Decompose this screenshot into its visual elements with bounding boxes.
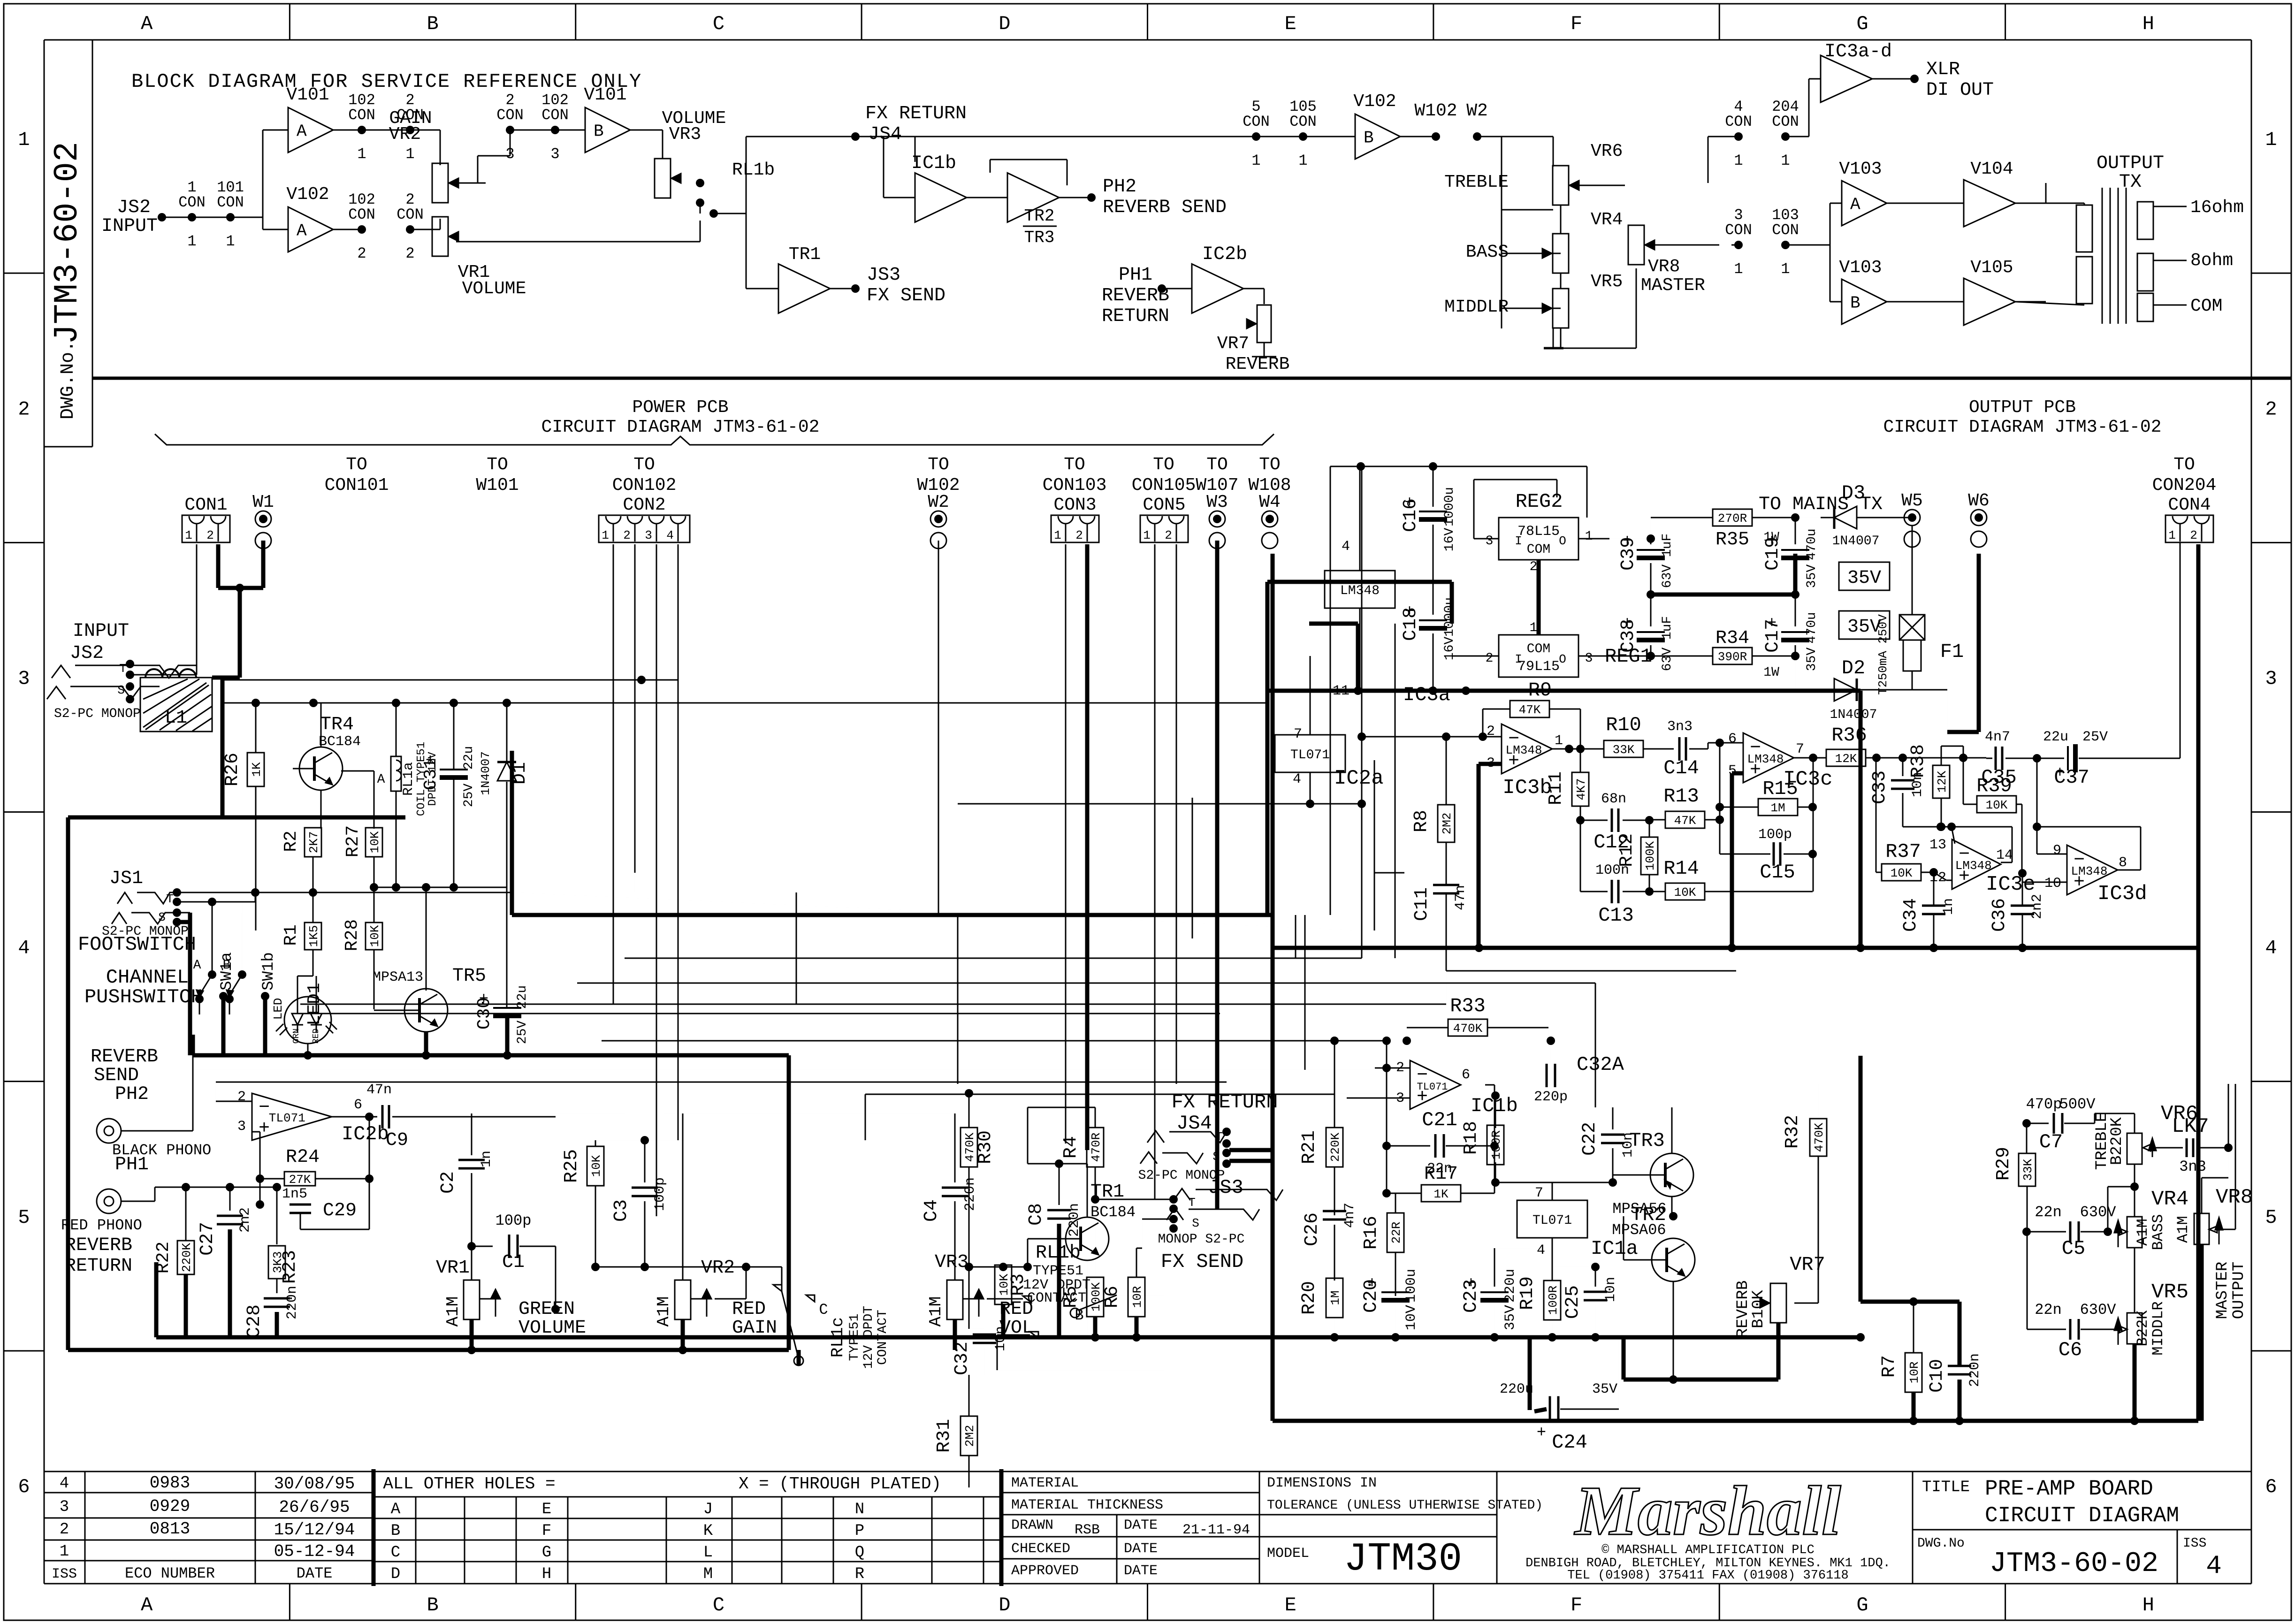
wire long horiz B [300,1013,1220,1014]
svg-text:4: 4 [2265,937,2277,960]
wire long horiz E [216,1082,1227,1083]
svg-text:C21: C21 [1422,1109,1457,1131]
bus power com [1267,582,1452,915]
ground bus power 1472 [1266,686,1860,948]
svg-text:630V: 630V [2080,1301,2117,1319]
svg-text:26/6/95: 26/6/95 [279,1498,350,1517]
svg-text:D2: D2 [1842,657,1865,679]
regulator REG2 78L15 [1474,480,1651,624]
svg-text:C: C [713,13,724,35]
svg-text:L1: L1 [165,708,187,729]
svg-text:CON: CON [1243,113,1270,130]
net label W102 [917,455,960,496]
svg-text:VR6: VR6 [1591,141,1623,161]
jack JS1 footswitch [78,868,196,956]
svg-text:C28: C28 [244,1304,265,1338]
power pcb label [541,397,820,437]
svg-text:O: O [1559,652,1566,666]
svg-text:3: 3 [237,1119,246,1135]
svg-text:3: 3 [1585,651,1593,666]
svg-text:27K: 27K [289,1173,311,1187]
capacitor C23 [1461,1248,1530,1342]
amp TR2 TR3 block [967,160,1067,247]
pot VR5 MIDDLR [2114,1281,2188,1425]
resistor R33 [1403,995,1548,1045]
svg-text:R2: R2 [281,831,301,852]
svg-text:2M2: 2M2 [1440,813,1454,835]
resistor R13 [1649,785,1724,828]
svg-text:T: T [1188,1196,1196,1210]
bus right vertical [2196,544,2201,1421]
wire long horiz F [865,1094,1334,1140]
node CON101 block [192,179,244,250]
svg-text:A: A [141,1594,153,1616]
svg-text:4: 4 [1342,539,1350,555]
svg-text:V101: V101 [286,85,329,105]
svg-text:TO: TO [1259,455,1281,475]
svg-text:CON102: CON102 [612,475,677,496]
svg-text:FX SEND: FX SEND [867,285,945,306]
svg-text:TR3: TR3 [1629,1129,1665,1152]
svg-text:G: G [1856,1594,1868,1616]
wire footswitch net2 [177,898,255,1055]
svg-text:INPUT: INPUT [101,216,158,237]
net label CON103 [1043,455,1107,496]
svg-text:R13: R13 [1663,785,1699,808]
svg-text:3: 3 [1486,534,1494,549]
svg-text:7: 7 [1294,726,1302,742]
capacitor C10 [1927,1353,1983,1425]
relay contact RL1c [746,1267,890,1369]
transistor TR4 [293,703,385,829]
label channel pushswitch [84,966,203,1008]
tube amp V101B [584,85,630,152]
wire long horiz D [512,873,1362,930]
wire long vert G [796,798,1305,1084]
svg-text:VR8: VR8 [1648,257,1680,277]
pad W2 [928,492,949,549]
svg-text:MONOP S2-PC: MONOP S2-PC [1158,1232,1245,1247]
svg-text:R1: R1 [281,924,301,946]
svg-text:TL071: TL071 [1417,1081,1448,1093]
svg-text:G: G [1856,13,1868,35]
capacitor C17 [1762,590,1819,671]
svg-text:A: A [377,772,385,787]
resistor R34 [1651,628,1799,680]
svg-text:V105: V105 [1970,258,2013,278]
node PH1 REVERB RETURN block [1102,265,1192,327]
resistor R28 [342,887,382,1009]
svg-text:C31: C31 [421,758,441,790]
resistor R31 [934,1375,977,1487]
svg-text:BASS: BASS [2150,1214,2167,1250]
svg-text:W4: W4 [1259,492,1281,512]
wire IC3c out rail [1794,754,1826,892]
svg-text:© MARSHALL AMPLIFICATION PLC: © MARSHALL AMPLIFICATION PLC [1601,1543,1815,1557]
svg-text:1: 1 [226,233,235,250]
transistor TR2 [1612,1204,1695,1384]
output transformer [2015,153,2244,324]
svg-text:25V: 25V [515,1021,530,1045]
svg-text:MATERIAL THICKNESS: MATERIAL THICKNESS [1011,1497,1163,1513]
op-amp IC2b block [1192,244,1247,313]
svg-text:78L15: 78L15 [1517,524,1560,540]
connector CON5 [1140,495,1188,542]
svg-text:10K: 10K [1674,885,1696,900]
svg-text:T: T [119,662,127,676]
wire CON1 pin1 down [130,544,197,675]
svg-text:RL1a: RL1a [401,762,417,796]
svg-text:1n: 1n [479,1151,495,1167]
svg-text:MASTER: MASTER [1641,275,1705,296]
svg-text:6: 6 [354,1097,362,1113]
svg-text:−: − [259,1098,270,1119]
svg-text:SW1b: SW1b [260,952,278,991]
svg-text:TOLERANCE (UNLESS UTHERWISE ST: TOLERANCE (UNLESS UTHERWISE STATED) [1267,1498,1543,1513]
svg-text:C22: C22 [1579,1122,1601,1156]
svg-text:1N4007: 1N4007 [1830,708,1877,722]
svg-text:B22K: B22K [2134,1310,2151,1347]
pot VR1 block labels [458,262,526,299]
pad W6 [1968,491,1990,547]
svg-text:1: 1 [60,1543,69,1561]
svg-text:R14: R14 [1663,857,1699,880]
svg-text:10n: 10n [1603,1277,1619,1302]
svg-text:R17: R17 [1424,1164,1458,1185]
capacitor C24 [1500,1337,1619,1454]
svg-text:S: S [1212,1150,1220,1164]
svg-text:C27: C27 [197,1222,218,1256]
svg-text:COM: COM [1527,542,1550,557]
svg-text:DWG.No.: DWG.No. [58,341,79,419]
svg-text:33K: 33K [1613,743,1635,757]
svg-text:C18: C18 [1400,607,1421,641]
svg-text:TO: TO [346,455,367,475]
IC IC1a TL071 [1494,1182,1638,1281]
svg-text:R3: R3 [1008,1273,1029,1296]
svg-text:A1M: A1M [2134,1219,2151,1246]
svg-text:CIRCUIT DIAGRAM JTM3-61-02: CIRCUIT DIAGRAM JTM3-61-02 [541,417,820,437]
svg-text:5: 5 [2265,1206,2277,1229]
jack JS2 input [47,621,196,721]
svg-text:35V: 35V [1502,1305,1518,1330]
svg-text:R38: R38 [1908,744,1929,778]
svg-text:BASS: BASS [1466,242,1509,262]
svg-text:12K: 12K [1935,770,1949,793]
svg-text:VR5: VR5 [2151,1281,2188,1304]
switch SW1a [193,952,236,1055]
svg-text:VOLUME: VOLUME [462,279,526,299]
diode D1 [479,703,531,1005]
svg-text:21-11-94: 21-11-94 [1182,1522,1250,1538]
svg-text:4n7: 4n7 [1985,729,2010,745]
capacitor C14 [1663,719,1743,779]
svg-text:220u: 220u [1502,1269,1518,1303]
svg-text:TR2: TR2 [1024,206,1055,226]
wire SW1b drop [242,902,255,975]
capacitor C38 [1618,595,1675,671]
svg-text:7: 7 [1796,741,1804,757]
svg-text:ISS: ISS [52,1566,77,1582]
svg-text:CON103: CON103 [1043,475,1107,496]
svg-text:1: 1 [405,145,414,163]
net label W108 [1248,455,1291,496]
svg-text:6: 6 [1728,731,1737,747]
capacitor C34 [1900,872,1957,952]
svg-text:100R: 100R [1489,1130,1503,1159]
wire IC3d plus [2022,882,2067,883]
svg-text:C13: C13 [1598,904,1634,927]
svg-text:16V: 16V [1442,637,1457,661]
svg-text:470K: 470K [1453,1022,1483,1036]
capacitor C13 [1580,820,1649,927]
node PH2 REVERB SEND block [1059,176,1227,218]
svg-text:CON: CON [496,107,524,124]
capacitor C6 [2027,1232,2116,1361]
svg-text:CON: CON [1772,113,1799,130]
svg-text:R18: R18 [1461,1121,1482,1155]
svg-text:1: 1 [1734,260,1743,278]
node CON204 block [1708,98,1809,183]
resistor R29 [1993,1123,2036,1236]
svg-text:PH2: PH2 [115,1084,149,1105]
resistor R8 [1411,737,1455,885]
transistor TR3 [1612,1107,1693,1218]
svg-text:VR2: VR2 [701,1258,735,1279]
svg-text:R16: R16 [1361,1216,1382,1250]
capacitor C20 [1361,1269,1419,1342]
svg-text:V102: V102 [1353,91,1396,112]
svg-text:2: 2 [405,245,414,262]
wire VR6 bottom to VR4 [2104,1187,2135,1236]
svg-text:JTM3-60-02: JTM3-60-02 [1990,1548,2158,1580]
svg-text:1: 1 [1585,529,1593,544]
svg-text:4: 4 [1293,771,1301,787]
svg-text:100p: 100p [652,1177,668,1211]
svg-text:3: 3 [18,667,30,690]
wire input split [230,130,288,229]
resistor R30 [961,1089,1404,1271]
svg-text:LM348: LM348 [1747,752,1784,766]
capacitor C39 [1618,533,1675,599]
svg-text:C29: C29 [323,1200,357,1221]
svg-text:2: 2 [1075,528,1083,542]
node CON105 block [1243,98,1355,169]
net label CON204 [2152,455,2217,496]
svg-text:BC184: BC184 [1090,1204,1136,1221]
bus W6 drop [1947,554,1979,732]
svg-text:1: 1 [1298,152,1307,169]
svg-text:C6: C6 [2059,1339,2082,1361]
capacitor C33 [1869,754,1926,827]
svg-text:220n: 220n [1067,1203,1083,1237]
svg-text:1M: 1M [1770,801,1785,815]
svg-text:3n3: 3n3 [1667,719,1693,735]
svg-text:IC3a: IC3a [1403,684,1450,706]
svg-text:C26: C26 [1302,1212,1323,1246]
svg-text:470u: 470u [1805,612,1819,643]
svg-text:INPUT: INPUT [73,621,129,642]
capacitor C16 [1400,487,1457,615]
svg-text:2n2: 2n2 [2029,894,2045,919]
capacitor C15 [1720,827,1817,884]
svg-text:V103: V103 [1839,258,1882,278]
svg-text:R9: R9 [1528,679,1552,701]
svg-text:16V: 16V [1442,528,1457,552]
svg-text:W3: W3 [1206,492,1228,512]
svg-text:E: E [542,1501,551,1518]
svg-text:LK7: LK7 [2172,1115,2209,1138]
svg-text:R25: R25 [561,1149,582,1183]
resistor R23 [230,1183,301,1293]
svg-text:W5: W5 [1901,491,1923,511]
wire FX return to IC1b [855,137,915,198]
svg-text:47n: 47n [366,1082,392,1098]
svg-text:B: B [427,1594,438,1616]
svg-text:MIDDLR: MIDDLR [2150,1301,2167,1355]
svg-text:C3: C3 [611,1199,632,1222]
svg-text:35V: 35V [1805,648,1819,671]
svg-text:3: 3 [2265,667,2277,690]
svg-text:13: 13 [1929,837,1946,853]
svg-text:I: I [1515,534,1522,548]
svg-text:2: 2 [1486,651,1494,666]
connector CON3 [1051,495,1099,542]
svg-text:K: K [703,1522,713,1540]
svg-text:CON: CON [348,107,375,124]
regulator REG1 79L15 [1452,621,1652,677]
svg-text:W6: W6 [1968,491,1990,511]
node JS4 FX RETURN block [851,103,967,145]
svg-text:+: + [1537,1424,1546,1442]
capacitor C21 [1382,1070,1499,1177]
svg-text:REVERB: REVERB [91,1046,158,1067]
svg-text:A1M: A1M [926,1296,945,1327]
svg-text:100K: 100K [1089,1282,1103,1311]
link LK7 [2172,1084,2233,1175]
op-amp IC1b block [911,153,967,222]
svg-text:2: 2 [2265,398,2277,420]
svg-text:RETURN: RETURN [1102,306,1169,327]
svg-text:R20: R20 [1299,1281,1320,1315]
svg-text:Marshall: Marshall [1574,1472,1841,1550]
bus mid horizontal 1950 [512,751,1273,915]
svg-text:30/08/95: 30/08/95 [274,1474,355,1494]
svg-text:C37: C37 [2054,766,2089,789]
svg-text:220n: 220n [962,1177,978,1211]
svg-text:10V: 10V [1403,1305,1419,1330]
svg-text:A: A [141,13,153,35]
svg-text:CON: CON [1725,221,1752,239]
capacitor C36 [1989,869,2045,952]
svg-text:3: 3 [505,145,514,163]
resistor R26 [222,703,264,930]
relay contact RL1b [987,1243,1164,1370]
pot VR4 BASS block [1466,210,1623,289]
capacitor C32A cap [1534,1037,1624,1107]
svg-text:E: E [1285,1594,1296,1616]
svg-text:100p: 100p [1758,827,1792,843]
wire W2 down [938,541,939,915]
svg-text:JS4: JS4 [868,124,902,145]
svg-text:B: B [1364,129,1374,148]
op-amp IC1b [1347,1060,1518,1117]
svg-text:W2: W2 [1466,101,1488,121]
svg-text:JS3: JS3 [867,265,900,286]
svg-text:C1: C1 [502,1252,525,1273]
svg-text:VR3: VR3 [669,124,701,145]
svg-text:1n: 1n [1941,898,1957,915]
net label CON102 [612,455,677,496]
svg-text:R21: R21 [1299,1130,1320,1164]
wire vertical 2902 [1361,466,1363,958]
svg-text:IC3b: IC3b [1502,776,1552,800]
svg-text:VR5: VR5 [1591,272,1623,292]
svg-text:10K: 10K [1891,866,1913,880]
svg-text:C32A: C32A [1577,1053,1624,1076]
svg-text:C20: C20 [1361,1279,1382,1313]
node W102 W2 block [1400,101,1502,141]
resistor R18 [1461,1091,1504,1187]
svg-text:RED: RED [732,1299,766,1320]
svg-text:4: 4 [18,937,30,960]
svg-text:1n5: 1n5 [282,1186,307,1202]
svg-text:V104: V104 [1970,159,2013,179]
svg-text:10: 10 [2044,876,2061,892]
svg-text:A1M: A1M [654,1296,673,1327]
resistor R32 [1782,1084,1827,1291]
wire long horiz C [602,1040,1387,1042]
svg-text:C30: C30 [474,998,495,1029]
capacitor C3 [611,1136,668,1271]
svg-text:1: 1 [2265,129,2277,151]
ground bus mid2 [68,1317,789,1350]
bus CON1 W1 drop [212,541,263,817]
svg-text:LED1: LED1 [305,983,325,1025]
wire IC3c plus thick [1732,773,1743,948]
svg-text:630V: 630V [2080,1204,2117,1221]
svg-text:470p: 470p [2026,1096,2062,1113]
resistor R4 [1028,1107,1104,1204]
svg-text:2M2: 2M2 [963,1425,977,1447]
svg-text:FX RETURN: FX RETURN [1172,1091,1278,1113]
svg-text:IC2b: IC2b [1202,244,1247,265]
wire mid 1713 [958,800,1366,808]
resistor R38 [1908,744,1963,831]
svg-text:CON5: CON5 [1143,495,1185,515]
svg-text:DATE: DATE [297,1565,333,1582]
svg-text:1K: 1K [250,762,264,777]
resistor R16 [1361,1193,1404,1296]
svg-text:C38: C38 [1618,619,1639,653]
svg-text:GRN: GRN [292,1029,301,1044]
wire long horiz J [577,983,1595,1107]
svg-text:A: A [297,122,307,141]
svg-text:100n: 100n [1595,862,1629,878]
svg-text:11: 11 [1333,683,1350,699]
svg-text:R5: R5 [1060,1286,1082,1308]
svg-text:FX SEND: FX SEND [1161,1250,1243,1273]
svg-text:6: 6 [18,1476,30,1498]
svg-text:COM: COM [2190,296,2222,316]
svg-text:ECO NUMBER: ECO NUMBER [125,1565,215,1582]
svg-text:1: 1 [1781,152,1790,169]
jack JS2 block input [101,197,192,237]
svg-text:W1: W1 [252,492,274,512]
hole legend table [374,1474,1001,1584]
svg-text:TO: TO [1064,455,1085,475]
svg-text:MATERIAL: MATERIAL [1011,1475,1079,1491]
